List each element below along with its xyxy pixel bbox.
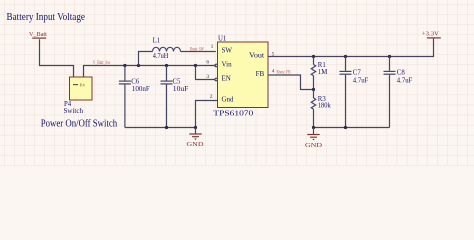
wire V_Batt to switch pin 1 [40,39,74,77]
svg-text:C6: C6 [131,79,140,86]
junction on rail at EN branch [194,64,197,67]
svg-text:4.7uH: 4.7uH [153,53,169,60]
ground GND2 [305,128,323,150]
svg-text:GND: GND [187,141,205,148]
svg-text:5: 5 [272,51,275,57]
junction Vout rail at R1 [312,55,315,58]
svg-text:Battery Input Voltage: Battery Input Voltage [7,12,86,23]
svg-text:1: 1 [211,44,214,50]
svg-text:P4: P4 [64,101,72,108]
svg-text:100nF: 100nF [132,86,150,93]
junction at GND1 [194,126,197,129]
junction Vout rail at C8 [388,55,391,58]
svg-text:6: 6 [206,60,209,66]
svg-text:2: 2 [210,94,213,100]
ground GND1 [187,128,205,149]
power port V_Batt [29,31,47,38]
resistor R3 [311,90,315,128]
junction Vout rail at C7 [344,55,347,58]
svg-text:Gnd: Gnd [222,96,235,104]
wire switch pin 2 to Vin rail [84,66,216,78]
junction on rail at C6 [123,64,126,67]
svg-text:Switch: Switch [64,108,84,115]
svg-text:GND: GND [305,142,323,149]
op-amp U1 body [218,42,269,108]
wire bottom-right ground rail [314,127,390,129]
junction at R3 bottom / GND2 [312,126,315,129]
svg-text:U1: U1 [218,36,226,43]
svg-text:10uF: 10uF [173,86,189,93]
svg-text:C7: C7 [353,70,362,77]
capacitor C7 [340,57,352,128]
svg-text:Power On/Off Switch: Power On/Off Switch [41,119,118,130]
resistor R1 [311,57,315,90]
wire Vout rail to +3.3V [268,38,434,56]
capacitor C5 [161,66,173,128]
wire EN branch [196,66,215,80]
svg-text:C8: C8 [397,70,406,77]
wire FB to divider [268,75,314,90]
wire Gnd pin 2 to ground [196,101,218,128]
svg-text:Vout: Vout [249,51,264,59]
junction on rail at L1 [137,64,140,67]
junction on rail at C5 [165,64,168,67]
junction at C7 bottom [344,126,347,129]
svg-text:Boost_SW: Boost_SW [190,47,204,52]
svg-text:SW: SW [222,47,233,55]
svg-text:V_Batt: V_Batt [29,31,47,38]
svg-text:4.7uF: 4.7uF [397,78,413,85]
svg-text:TPS61070: TPS61070 [213,111,254,118]
capacitor C8 [384,57,396,128]
svg-text:+3.3V: +3.3V [422,30,440,37]
power port +3.3V [422,30,441,38]
svg-text:4: 4 [272,69,275,75]
svg-text:EN: EN [222,75,231,83]
svg-text:1M: 1M [318,69,327,76]
svg-text:4.7uF: 4.7uF [353,78,369,85]
wire bottom-left ground rail [125,127,196,129]
svg-text:L1: L1 [153,38,161,45]
pin circle Vin [215,64,218,67]
svg-text:Boost_FB: Boost_FB [277,70,291,75]
switch P4 [70,77,93,100]
inductor L1 [139,47,216,65]
junction FB divider [312,88,315,91]
svg-text:C5: C5 [173,79,182,86]
svg-text:V_Batt_Sw: V_Batt_Sw [93,61,111,66]
svg-text:3: 3 [206,74,209,80]
svg-text:Vin: Vin [222,61,233,69]
junction at C5 bottom [165,126,168,129]
svg-text:FB: FB [256,70,265,78]
svg-text:180k: 180k [318,102,332,109]
svg-text:P4: P4 [80,82,86,87]
pin circle EN [215,78,218,81]
capacitor C6 [119,66,131,128]
